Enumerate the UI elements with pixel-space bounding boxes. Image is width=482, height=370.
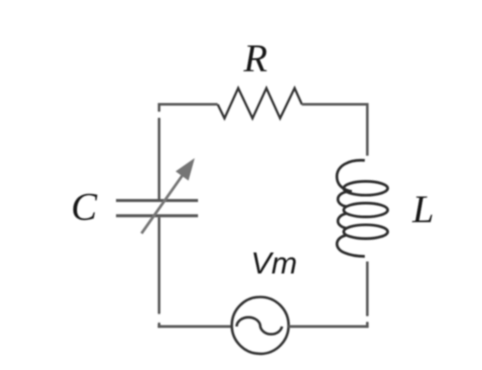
- wire: bottom-left horizontal segment: [158, 325, 233, 328]
- wire gap notch right lower: [364, 316, 372, 321]
- capacitor C1 bottom plate: [116, 214, 198, 217]
- inductor L1 loop 2: [344, 203, 388, 217]
- resistor R1 zigzag: [218, 88, 302, 118]
- variable capacitor arrow head: [177, 161, 193, 180]
- wire: right vertical upper segment: [366, 103, 369, 156]
- inductor L1 loop 1: [344, 181, 388, 195]
- AC source sine wave: [237, 317, 282, 334]
- svg-text:C: C: [71, 186, 98, 229]
- svg-text:L: L: [411, 188, 434, 231]
- wire: top-right horizontal segment: [302, 103, 368, 106]
- inductor L1 top hook: [337, 160, 365, 191]
- wire: right vertical lower segment: [366, 262, 369, 328]
- wire: left vertical upper segment: [158, 103, 161, 199]
- wire: left vertical lower segment: [158, 217, 161, 327]
- inductor L1 loop 3: [344, 225, 388, 239]
- svg-text:R: R: [243, 37, 268, 80]
- svg-text:Vm: Vm: [251, 246, 298, 281]
- AC source V1 circle: [232, 297, 289, 354]
- inductor L1 connector arc 1: [338, 192, 347, 207]
- inductor L1 bottom hook: [337, 235, 365, 256]
- wire gap notch left upper: [156, 112, 164, 118]
- variable capacitor arrow shaft: [142, 175, 184, 234]
- wire: top-left horizontal segment: [159, 103, 218, 106]
- wire: bottom-right horizontal segment: [288, 325, 368, 328]
- inductor L1 connector arc 2: [338, 214, 347, 229]
- capacitor C1 top plate: [116, 199, 198, 202]
- wire gap notch left lower: [156, 314, 164, 322]
